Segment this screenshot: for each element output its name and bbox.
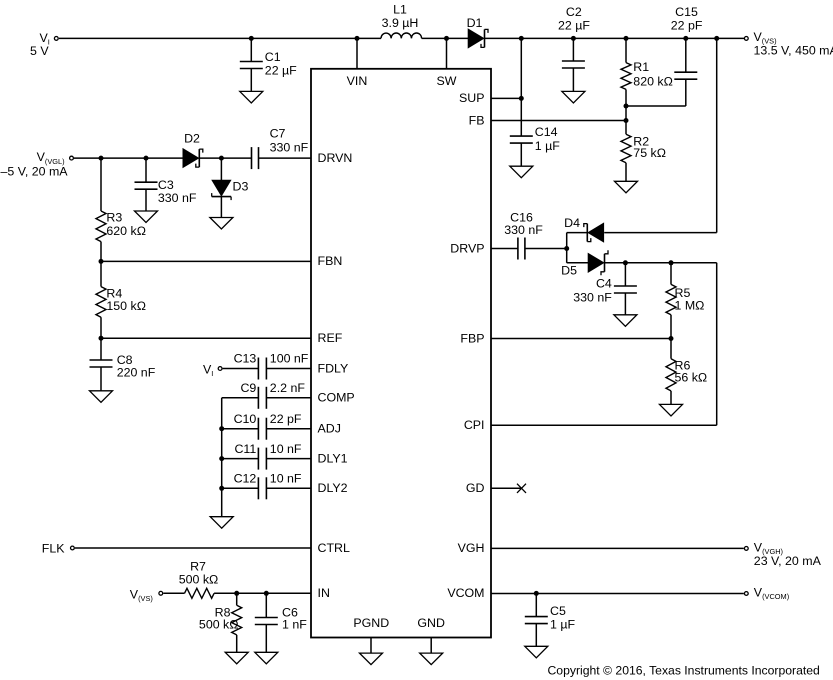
- svg-text:DRVN: DRVN: [318, 151, 353, 165]
- svg-text:D1: D1: [467, 16, 483, 30]
- svg-text:330 nF: 330 nF: [158, 191, 197, 205]
- svg-text:FBP: FBP: [460, 331, 484, 345]
- svg-text:10 nF: 10 nF: [270, 442, 302, 456]
- svg-text:D2: D2: [184, 132, 200, 146]
- svg-text:FDLY: FDLY: [318, 361, 349, 375]
- svg-text:FBN: FBN: [318, 254, 343, 268]
- svg-text:GND: GND: [417, 616, 445, 630]
- svg-text:C14: C14: [535, 125, 558, 139]
- svg-text:1 µF: 1 µF: [535, 139, 560, 153]
- svg-text:C12: C12: [234, 472, 257, 486]
- svg-text:REF: REF: [318, 331, 343, 345]
- svg-text:C10: C10: [234, 412, 257, 426]
- svg-text:C16: C16: [510, 210, 533, 224]
- svg-text:22 pF: 22 pF: [270, 412, 302, 426]
- svg-text:1 nF: 1 nF: [282, 618, 307, 632]
- svg-text:C1: C1: [265, 50, 281, 64]
- svg-text:100 nF: 100 nF: [270, 352, 309, 366]
- svg-text:COMP: COMP: [318, 391, 355, 405]
- svg-text:VCOM: VCOM: [447, 586, 484, 600]
- svg-text:56 kΩ: 56 kΩ: [675, 371, 708, 385]
- svg-text:13.5 V, 450 mA: 13.5 V, 450 mA: [754, 43, 833, 57]
- svg-text:C9: C9: [240, 381, 256, 395]
- svg-text:75 kΩ: 75 kΩ: [633, 146, 666, 160]
- svg-text:FLK: FLK: [42, 541, 65, 555]
- svg-text:SUP: SUP: [459, 91, 484, 105]
- svg-text:220 nF: 220 nF: [117, 365, 156, 379]
- svg-text:1 MΩ: 1 MΩ: [675, 299, 705, 313]
- svg-text:22 pF: 22 pF: [671, 18, 703, 32]
- svg-text:R3: R3: [106, 211, 122, 225]
- svg-text:ADJ: ADJ: [318, 422, 341, 436]
- svg-text:1 µF: 1 µF: [550, 618, 575, 632]
- svg-text:DRVP: DRVP: [450, 241, 484, 255]
- svg-text:10 nF: 10 nF: [270, 472, 302, 486]
- svg-text:3.9 µH: 3.9 µH: [382, 16, 419, 30]
- svg-text:C5: C5: [550, 604, 566, 618]
- svg-text:VGH: VGH: [458, 541, 485, 555]
- svg-text:820 kΩ: 820 kΩ: [633, 74, 673, 88]
- svg-text:FB: FB: [469, 113, 485, 127]
- svg-text:C15: C15: [675, 5, 698, 19]
- svg-text:IN: IN: [318, 586, 330, 600]
- svg-text:D4: D4: [564, 216, 580, 230]
- svg-text:C7: C7: [270, 127, 286, 141]
- svg-text:500 kΩ: 500 kΩ: [179, 572, 219, 586]
- svg-text:PGND: PGND: [353, 616, 389, 630]
- svg-text:D5: D5: [561, 263, 577, 277]
- svg-text:150 kΩ: 150 kΩ: [106, 299, 146, 313]
- svg-text:C11: C11: [234, 442, 256, 456]
- svg-text:2.2 nF: 2.2 nF: [270, 381, 306, 395]
- svg-text:C13: C13: [234, 352, 257, 366]
- svg-text:DLY2: DLY2: [318, 481, 348, 495]
- svg-text:SW: SW: [437, 74, 457, 88]
- svg-text:R1: R1: [633, 60, 649, 74]
- svg-text:500 kΩ: 500 kΩ: [199, 618, 239, 632]
- svg-text:–5 V, 20 mA: –5 V, 20 mA: [1, 165, 69, 179]
- svg-text:330 nF: 330 nF: [504, 223, 543, 237]
- svg-text:Copyright © 2016, Texas Instru: Copyright © 2016, Texas Instruments Inco…: [548, 664, 820, 678]
- svg-text:22 µF: 22 µF: [558, 18, 590, 32]
- svg-text:5 V: 5 V: [30, 44, 49, 58]
- svg-text:CTRL: CTRL: [318, 541, 350, 555]
- svg-text:D3: D3: [233, 180, 249, 194]
- svg-text:C3: C3: [158, 178, 174, 192]
- svg-text:CPI: CPI: [464, 418, 485, 432]
- svg-text:R4: R4: [106, 286, 122, 300]
- svg-text:330 nF: 330 nF: [270, 140, 309, 154]
- svg-text:23 V, 20 mA: 23 V, 20 mA: [754, 554, 822, 568]
- svg-text:620 kΩ: 620 kΩ: [106, 224, 146, 238]
- svg-text:330 nF: 330 nF: [573, 290, 612, 304]
- svg-text:C4: C4: [596, 277, 612, 291]
- svg-text:C2: C2: [566, 5, 582, 19]
- svg-text:GD: GD: [466, 481, 485, 495]
- svg-text:DLY1: DLY1: [318, 451, 348, 465]
- svg-text:L1: L1: [393, 3, 407, 17]
- svg-text:22 µF: 22 µF: [265, 63, 297, 77]
- svg-text:VIN: VIN: [347, 74, 368, 88]
